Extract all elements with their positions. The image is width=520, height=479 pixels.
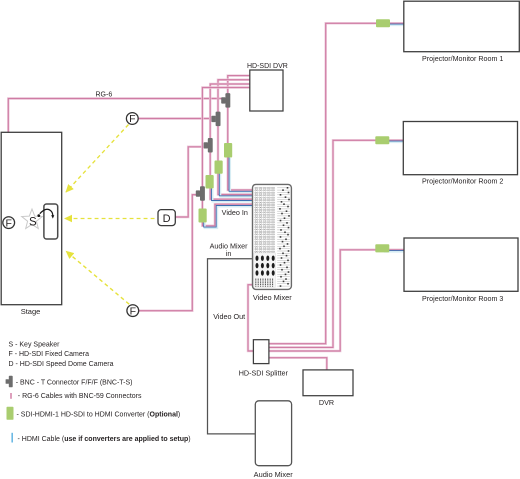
svg-text:- HDMI Cable (use if converter: - HDMI Cable (use if converters are appl… [18, 436, 191, 443]
svg-text:- SDI-HDMI-1 HD-SDI to HDMI C: - SDI-HDMI-1 HD-SDI to HDMI Converter (O… [17, 411, 181, 418]
svg-text:HD-SDI Splitter: HD-SDI Splitter [239, 369, 289, 378]
wire HDMI converter G3 to video mixer input 3 [213, 189, 254, 202]
camera D speed dome [158, 210, 175, 226]
wire splitter output 3 to room 3 (RG-6) [269, 250, 404, 351]
svg-text:Stage: Stage [21, 307, 41, 316]
wire HDMI converter G1 to video mixer input 1 [230, 158, 254, 192]
svg-text:S: S [29, 217, 37, 229]
SDI-HDMI converter R3 on room 3 feed [375, 244, 389, 252]
svg-text:Audio Mixer: Audio Mixer [254, 470, 294, 479]
svg-text:- RG-6 Cables with BNC-59 Conn: - RG-6 Cables with BNC-59 Connectors [18, 393, 142, 400]
svg-text:DVR: DVR [319, 398, 334, 407]
wire HDMI converter G2 to video mixer input 2 [220, 174, 254, 197]
wire T1 to HD-SDI DVR [228, 76, 250, 94]
legend icon: RG-6 cable [10, 393, 12, 399]
wire T3 through converter G3 to video mixer input 3 (RG-6) [210, 152, 253, 199]
legend icon: BNC T connector [6, 376, 13, 388]
svg-text:S - Key Speaker: S - Key Speaker [9, 342, 61, 349]
wire HDMI converter R3 to room 3 [384, 251, 405, 253]
BNC T-connector T1 [221, 93, 230, 108]
SDI-HDMI converter G1 [224, 143, 232, 158]
dashed arrow D dome camera aiming at stage [65, 218, 155, 220]
wire T4 to HD-SDI DVR [202, 88, 250, 188]
svg-text:- BNC - T Connector F/F/F (BNC: - BNC - T Connector F/F/F (BNC-T-S) [16, 379, 133, 386]
projector/monitor room 2 box [403, 122, 517, 175]
svg-text:D: D [163, 213, 171, 225]
wire HDMI converter R2 to room 2 [384, 141, 404, 143]
svg-text:Projector/Monitor Room 1: Projector/Monitor Room 1 [422, 55, 503, 63]
wire T1 through converter G1 to video mixer input 1 (RG-6) [228, 107, 253, 190]
HD-SDI splitter box [253, 340, 269, 364]
wire splitter output 2 to room 2 (RG-6) [269, 140, 403, 347]
SDI-HDMI converter R1 on room 1 feed [376, 19, 390, 27]
wire T4 through converter G4 to video mixer input 4 (RG-6) [202, 200, 252, 226]
wire T2 through converter G2 to video mixer input 2 (RG-6) [218, 125, 253, 195]
svg-text:D - HD-SDI Speed Dome Camera: D - HD-SDI Speed Dome Camera [9, 361, 114, 368]
wire T3 to HD-SDI DVR [210, 84, 250, 139]
SDI-HDMI converter G4 [199, 209, 207, 223]
SDI-HDMI converter G2 [215, 161, 223, 174]
wire D dome camera to T3 [176, 147, 205, 217]
BNC T-connector T4 [196, 186, 205, 201]
legend icon: HDMI cable [11, 433, 13, 443]
DVR box [303, 370, 353, 396]
wire splitter output 1 to room 1 (RG-6) [269, 23, 404, 343]
svg-text:Projector/Monitor Room 3: Projector/Monitor Room 3 [422, 295, 503, 303]
dashed arrow top F camera aiming at stage [66, 125, 129, 193]
HD-SDI DVR box [250, 70, 283, 111]
wire HDMI converter G4 to video mixer input 4 [205, 207, 254, 229]
wire splitter output 4 to DVR [269, 358, 327, 370]
SDI-HDMI converter R2 on room 2 feed [375, 136, 389, 144]
svg-text:F: F [130, 305, 136, 317]
BNC T-connector T2 [211, 112, 220, 127]
svg-text:HD-SDI DVR: HD-SDI DVR [247, 63, 288, 70]
svg-text:Projector/Monitor Room 2: Projector/Monitor Room 2 [422, 177, 503, 185]
camera F on stage edge [3, 217, 15, 230]
wire HDMI converter R1 to room 1 [384, 24, 405, 26]
rotation arrow onto speaker [37, 214, 40, 217]
BNC T-connector T3 [204, 138, 213, 153]
wire audio mixer in: video mixer to audio mixer [208, 259, 256, 434]
svg-text:RG-6: RG-6 [96, 92, 113, 99]
wire T2 to HD-SDI DVR [218, 80, 250, 113]
svg-text:in: in [226, 249, 232, 258]
camera F bottom fixed [127, 305, 139, 318]
key speaker star S [22, 209, 43, 229]
projector/monitor room 3 box [404, 238, 518, 291]
wire top F camera to T2 [138, 117, 213, 120]
svg-text:Video Mixer: Video Mixer [253, 293, 292, 302]
wire bottom F camera to T4 [138, 195, 197, 311]
wire video mixer Video Out to HD-SDI splitter [248, 285, 253, 351]
projector/monitor room 1 box [404, 1, 520, 52]
speaker cabinet on stage [44, 204, 58, 239]
svg-text:F - HD-SDI Fixed Camera: F - HD-SDI Fixed Camera [9, 351, 90, 358]
legend icon: SDI-HDMI converter [7, 407, 14, 420]
camera F top fixed [126, 113, 138, 126]
audio mixer box [255, 401, 291, 466]
svg-text:F: F [5, 217, 11, 229]
video mixer [253, 184, 292, 289]
wire RG-6 stage F camera to T1 [8, 99, 222, 218]
svg-text:Video Out: Video Out [213, 312, 245, 321]
SDI-HDMI converter G3 [206, 175, 214, 189]
stage [1, 132, 62, 304]
svg-text:Video In: Video In [222, 208, 248, 217]
svg-text:F: F [129, 113, 135, 125]
dashed arrow bottom F camera aiming at stage [66, 251, 129, 304]
